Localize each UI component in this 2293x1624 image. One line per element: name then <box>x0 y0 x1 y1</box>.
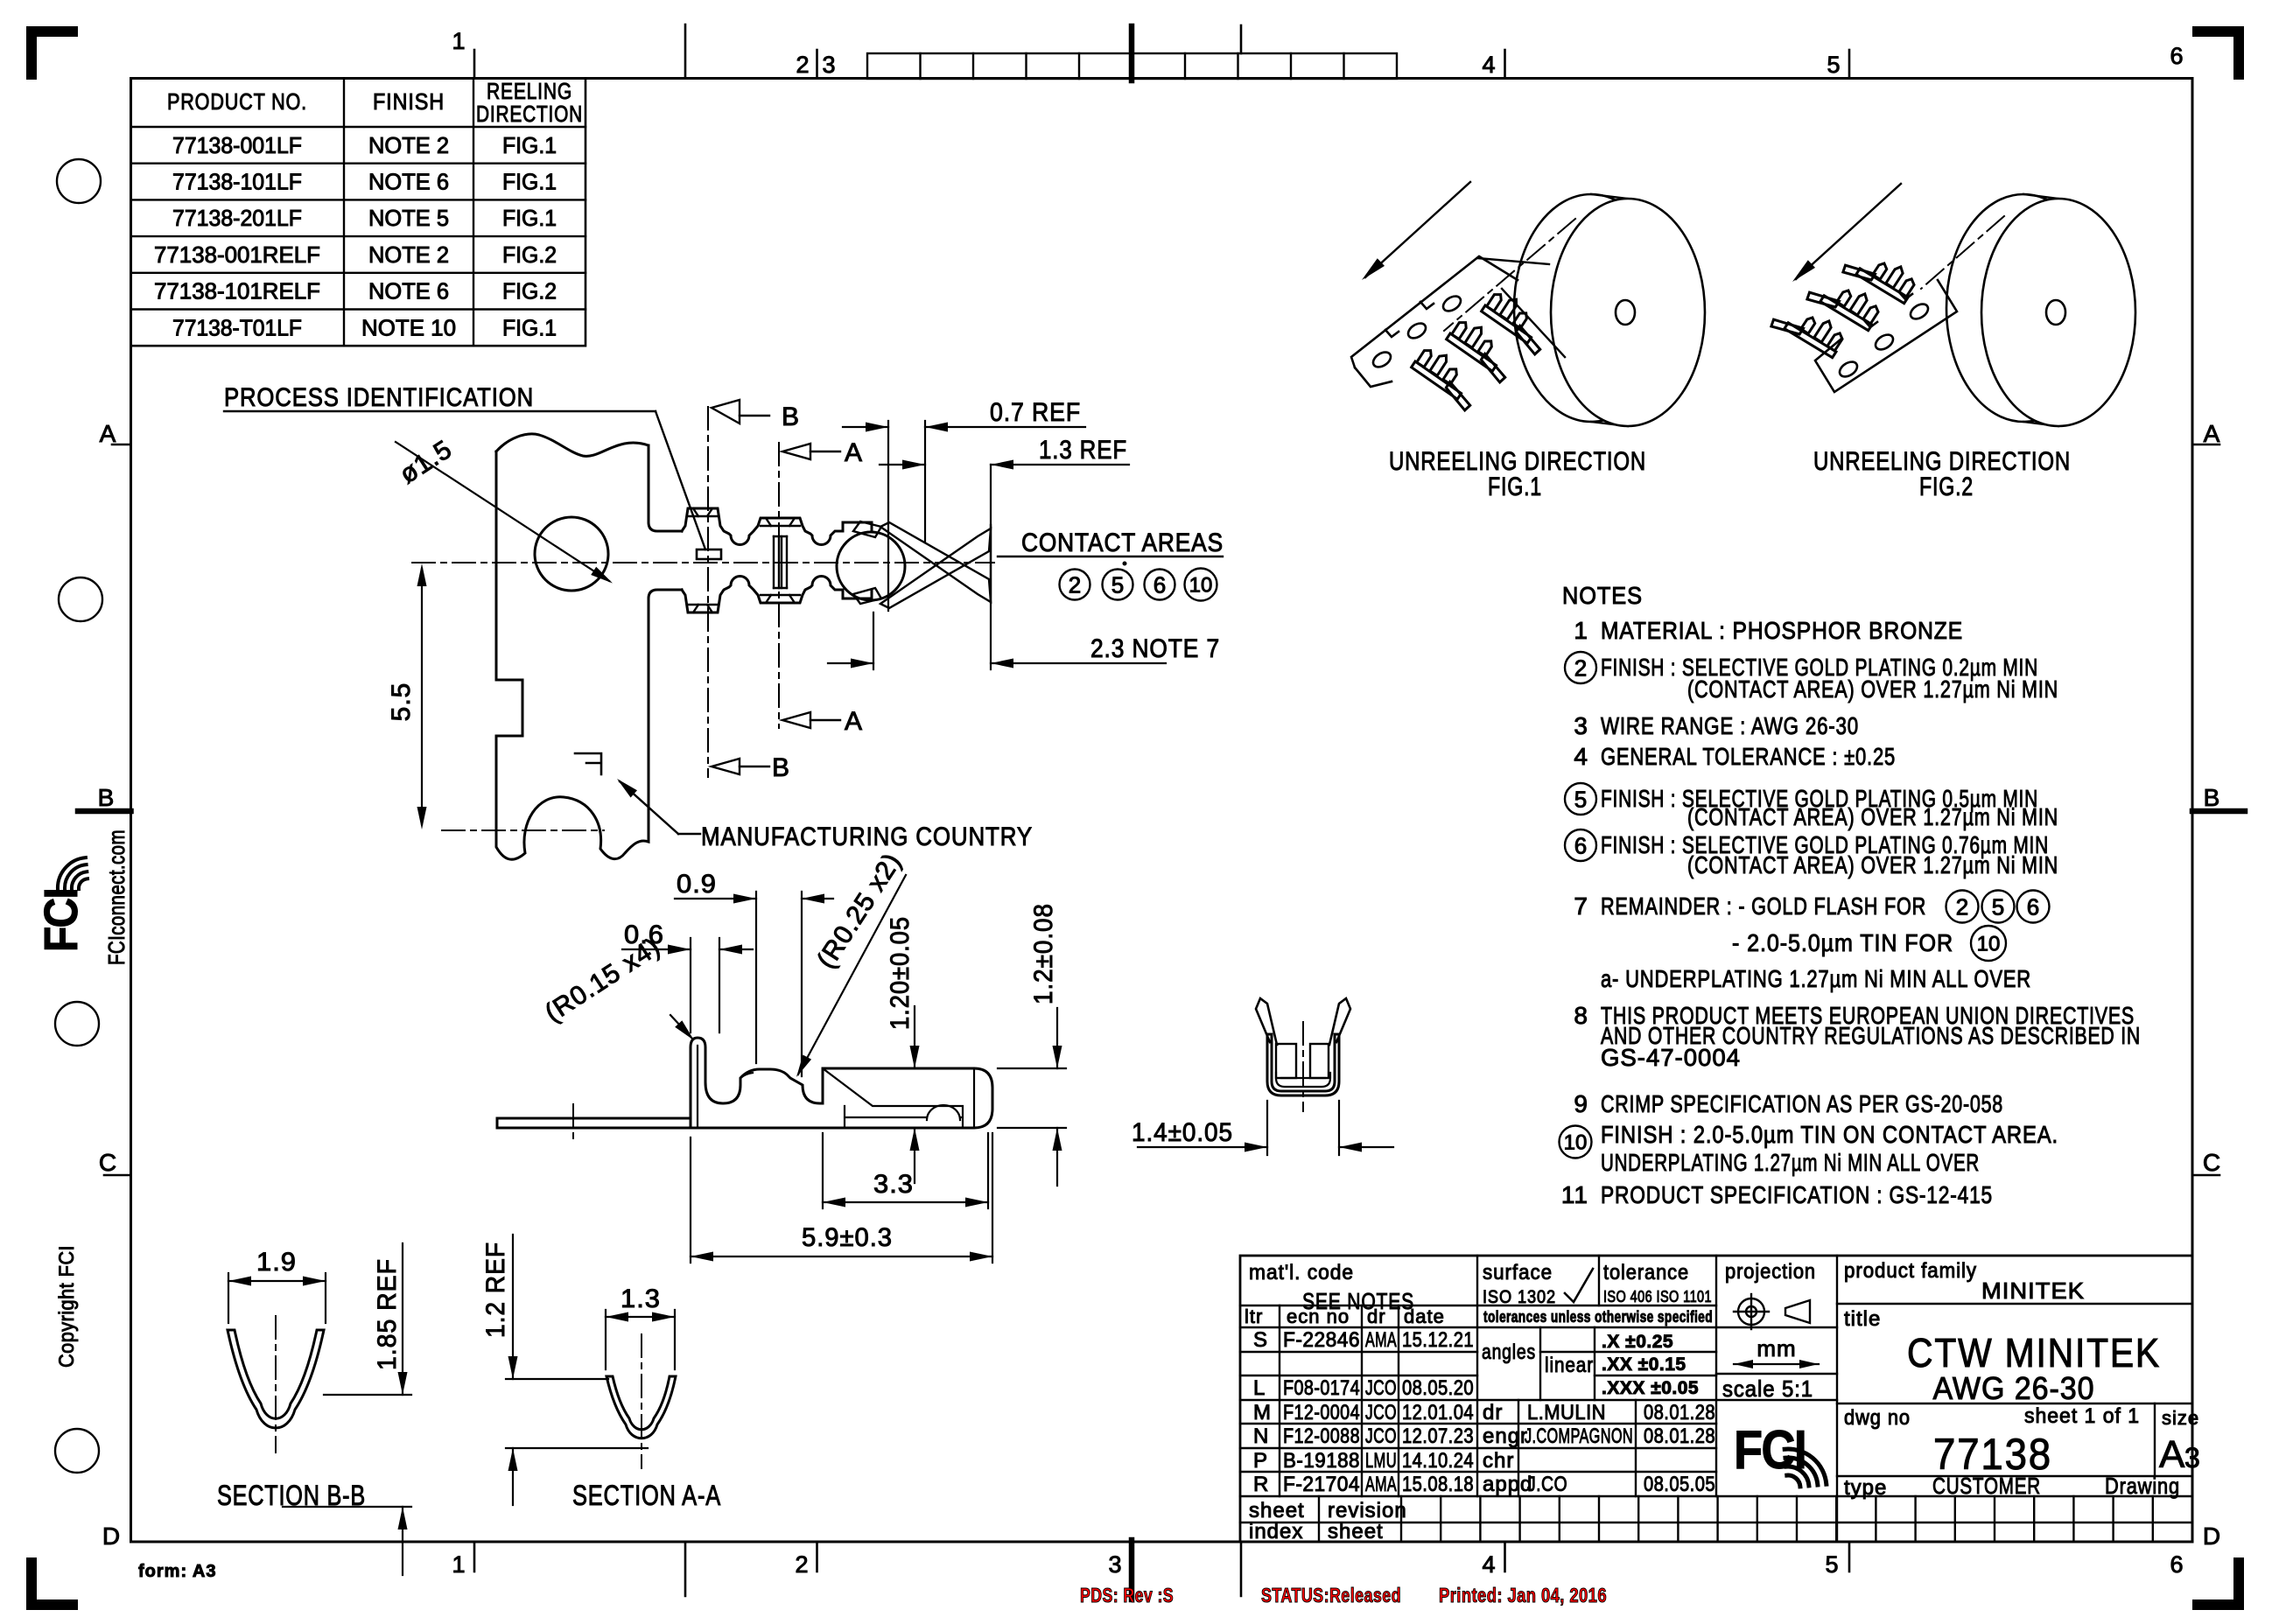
FIG.2 unreeling arrow <box>1796 184 1901 279</box>
svg-text:GENERAL TOLERANCE : ±0.25: GENERAL TOLERANCE : ±0.25 <box>1601 743 1896 770</box>
svg-text:5: 5 <box>1111 571 1124 598</box>
svg-text:.XXX ±0.05: .XXX ±0.05 <box>1602 1378 1699 1398</box>
svg-text:GS-47-0004: GS-47-0004 <box>1601 1044 1741 1071</box>
svg-text:a- UNDERPLATING 1.27µm Ni MIN: a- UNDERPLATING 1.27µm Ni MIN ALL OVER <box>1601 965 2031 992</box>
svg-text:linear: linear <box>1545 1354 1594 1377</box>
svg-text:FIG.1: FIG.1 <box>502 169 557 195</box>
svg-text:NOTE 5: NOTE 5 <box>368 205 449 231</box>
flat view: terminal outline bottom <box>682 577 872 613</box>
dim: 1.3 REF <box>990 465 992 669</box>
flat view: fork blades <box>880 522 991 602</box>
svg-text:NOTE 2: NOTE 2 <box>368 241 449 268</box>
flat view: carrier hole <box>535 517 608 591</box>
svg-text:14.10.24: 14.10.24 <box>1402 1449 1474 1473</box>
svg-text:77138: 77138 <box>1933 1430 2052 1479</box>
svg-text:AMA: AMA <box>1365 1473 1397 1496</box>
svg-text:5: 5 <box>1827 52 1840 78</box>
svg-text:10: 10 <box>1189 574 1213 598</box>
svg-text:77138-101LF: 77138-101LF <box>172 169 302 195</box>
front view: wings <box>1256 998 1277 1045</box>
note 2 <box>1565 652 1596 683</box>
svg-text:11: 11 <box>1561 1181 1588 1208</box>
svg-text:SECTION B-B: SECTION B-B <box>217 1480 366 1511</box>
dim: 0.9 <box>755 892 757 1063</box>
svg-text:MATERIAL : PHOSPHOR BRONZE: MATERIAL : PHOSPHOR BRONZE <box>1601 617 1963 644</box>
note 5 <box>1565 783 1596 815</box>
svg-text:15.12.21: 15.12.21 <box>1402 1328 1474 1352</box>
note 6 <box>1565 829 1596 861</box>
svg-text:SECTION A-A: SECTION A-A <box>572 1480 721 1511</box>
circled finish numbers <box>1060 570 1090 600</box>
svg-text:size: size <box>2162 1407 2199 1429</box>
svg-text:title: title <box>1844 1307 1881 1331</box>
svg-text:0.7 REF: 0.7 REF <box>990 398 1081 427</box>
svg-text:10: 10 <box>1977 933 2001 956</box>
svg-text:6: 6 <box>2027 893 2039 920</box>
svg-text:chr: chr <box>1483 1449 1514 1473</box>
svg-text:tolerance: tolerance <box>1603 1261 1689 1284</box>
FIG.1 unreeling arrow <box>1365 182 1470 277</box>
svg-text:DIRECTION: DIRECTION <box>476 101 583 127</box>
svg-text:B: B <box>772 753 789 782</box>
svg-text:.XX ±0.15: .XX ±0.15 <box>1602 1354 1686 1375</box>
section B-B view <box>228 1330 324 1428</box>
svg-text:FINISH : 2.0-5.0µm TIN ON CONT: FINISH : 2.0-5.0µm TIN ON CONTACT AREA. <box>1601 1121 2058 1148</box>
svg-text:1.4±0.05: 1.4±0.05 <box>1132 1118 1233 1147</box>
svg-text:D: D <box>102 1522 120 1550</box>
front view: wire sections <box>1276 1044 1296 1078</box>
svg-text:ltr: ltr <box>1245 1305 1263 1327</box>
svg-text:NOTE 6: NOTE 6 <box>368 169 449 195</box>
flat view: barrel latch hooks <box>853 521 881 537</box>
svg-text:Printed: Jan 04, 2016: Printed: Jan 04, 2016 <box>1439 1584 1607 1606</box>
svg-text:5.9±0.3: 5.9±0.3 <box>802 1223 893 1252</box>
svg-text:1.20±0.05: 1.20±0.05 <box>886 916 915 1030</box>
flat view: crimp inner lines <box>688 508 800 612</box>
svg-text:5: 5 <box>1574 786 1587 812</box>
svg-text:CUSTOMER: CUSTOMER <box>1932 1473 2041 1499</box>
svg-text:NOTE 10: NOTE 10 <box>361 314 456 340</box>
svg-text:1.85 REF: 1.85 REF <box>373 1258 402 1370</box>
svg-text:6: 6 <box>1574 832 1587 858</box>
svg-text:NOTE 2: NOTE 2 <box>368 132 449 158</box>
svg-text:FIG.1: FIG.1 <box>1488 472 1542 501</box>
svg-text:A: A <box>2159 1433 2185 1476</box>
projection symbol <box>1734 1294 1810 1329</box>
svg-text:B-19188: B-19188 <box>1283 1449 1360 1473</box>
dim: 5.9 +/-0.3 <box>690 1137 691 1263</box>
svg-text:6: 6 <box>1154 571 1166 598</box>
svg-text:mm: mm <box>1757 1335 1796 1361</box>
svg-text:B: B <box>2204 784 2220 811</box>
svg-text:C: C <box>2203 1149 2220 1176</box>
zone ticks and centring marks, top edge <box>473 50 476 79</box>
zone ticks left edge <box>112 444 131 446</box>
FIG.2 tape path <box>1921 216 2004 289</box>
flat view: process id mark <box>697 549 721 559</box>
svg-text:77138-001LF: 77138-001LF <box>172 132 302 158</box>
svg-text:sheet: sheet <box>1328 1520 1384 1543</box>
svg-text:PDS: Rev :S: PDS: Rev :S <box>1080 1584 1174 1606</box>
svg-text:engr: engr <box>1483 1424 1528 1448</box>
svg-text:F-21704: F-21704 <box>1283 1473 1360 1496</box>
svg-text:1: 1 <box>452 1551 465 1578</box>
svg-text:REMAINDER : - GOLD FLASH FOR: REMAINDER : - GOLD FLASH FOR <box>1601 892 1926 920</box>
svg-text:PRODUCT NO.: PRODUCT NO. <box>167 88 307 115</box>
svg-text:AMA: AMA <box>1365 1328 1397 1352</box>
FIG.1 terminals on strip <box>1407 343 1485 411</box>
svg-text:1.2 REF: 1.2 REF <box>481 1242 510 1338</box>
svg-text:B: B <box>782 402 799 431</box>
dim: 5.5 <box>421 569 423 824</box>
svg-text:scale 5:1: scale 5:1 <box>1722 1375 1813 1402</box>
svg-text:FIG.2: FIG.2 <box>1919 472 1974 501</box>
svg-text:P: P <box>1253 1449 1268 1473</box>
svg-text:revision: revision <box>1328 1499 1407 1522</box>
svg-text:1.2±0.08: 1.2±0.08 <box>1029 903 1058 1004</box>
svg-text:08.05.05: 08.05.05 <box>1644 1473 1715 1496</box>
front view: inner bottom line <box>1276 1073 1330 1087</box>
svg-text:0.9: 0.9 <box>677 870 717 899</box>
svg-text:2.3 NOTE 7: 2.3 NOTE 7 <box>1090 634 1220 663</box>
svg-text:AWG 26-30: AWG 26-30 <box>1933 1370 2095 1406</box>
svg-text:3: 3 <box>1574 712 1588 739</box>
svg-text:(CONTACT AREA) OVER 1.27µm Ni: (CONTACT AREA) OVER 1.27µm Ni MIN <box>1687 803 2058 830</box>
svg-text:12.01.04: 12.01.04 <box>1402 1401 1474 1424</box>
svg-text:WIRE RANGE : AWG 26-30: WIRE RANGE : AWG 26-30 <box>1601 712 1859 739</box>
svg-text:F12-0088: F12-0088 <box>1283 1424 1360 1448</box>
svg-text:index: index <box>1249 1520 1303 1543</box>
svg-text:(CONTACT AREA) OVER 1.27µm Ni: (CONTACT AREA) OVER 1.27µm Ni MIN <box>1687 675 2058 703</box>
svg-text:surface: surface <box>1483 1261 1553 1284</box>
svg-text:J.CO: J.CO <box>1527 1473 1567 1496</box>
svg-text:1: 1 <box>452 28 465 54</box>
flat view: contact barrel <box>837 532 905 600</box>
svg-text:FCI: FCI <box>35 889 88 952</box>
side view: carrier tail <box>497 1117 691 1120</box>
flat view: terminal outline top <box>682 508 872 545</box>
svg-text:77138-001RELF: 77138-001RELF <box>154 241 320 268</box>
svg-text:FCIconnect.com: FCIconnect.com <box>103 829 130 965</box>
front view: centreline <box>1302 1022 1304 1111</box>
svg-text:JCO: JCO <box>1365 1401 1397 1424</box>
svg-text:15.08.18: 15.08.18 <box>1402 1473 1474 1496</box>
svg-text:dwg no: dwg no <box>1844 1406 1911 1430</box>
FIG.1 reel <box>1514 194 1705 426</box>
svg-text:2: 2 <box>1574 654 1587 681</box>
svg-text:NOTE 6: NOTE 6 <box>368 278 449 304</box>
svg-text:MANUFACTURING COUNTRY: MANUFACTURING COUNTRY <box>701 822 1033 851</box>
flat view: horizontal centreline <box>412 562 994 563</box>
section line A-A <box>778 443 780 728</box>
svg-text:NOTES: NOTES <box>1562 582 1643 609</box>
svg-text:8: 8 <box>1574 1002 1588 1029</box>
svg-text:Drawing: Drawing <box>2105 1473 2180 1499</box>
svg-text:FIG.2: FIG.2 <box>502 278 557 304</box>
svg-text:ecn no: ecn no <box>1287 1305 1350 1327</box>
dim: 0.6 <box>690 938 691 1032</box>
flat view: carrier strip outline <box>496 434 682 859</box>
svg-text:sheet: sheet <box>1249 1499 1305 1522</box>
svg-text:12.07.23: 12.07.23 <box>1402 1424 1474 1448</box>
svg-text:3: 3 <box>1108 1551 1121 1578</box>
svg-text:F-22846: F-22846 <box>1283 1328 1360 1352</box>
svg-text:A: A <box>845 707 862 736</box>
title block: FCI logo <box>1734 1420 1827 1487</box>
svg-text:ISO 406 ISO 1101: ISO 406 ISO 1101 <box>1603 1288 1712 1305</box>
svg-text:2: 2 <box>1956 893 1968 920</box>
svg-text:5.5: 5.5 <box>387 682 416 722</box>
svg-text:6: 6 <box>2170 1551 2183 1578</box>
side view: terminal profile <box>691 1038 992 1128</box>
svg-text:FINISH: FINISH <box>373 88 445 115</box>
section line B-B <box>707 407 709 777</box>
svg-text:10: 10 <box>1564 1131 1588 1155</box>
svg-text:Copyright FCI: Copyright FCI <box>55 1245 79 1368</box>
dim: 1.4 +/-0.05 <box>1266 1101 1268 1155</box>
dim: 0.7 REF <box>887 421 889 611</box>
svg-text:2: 2 <box>795 1551 808 1578</box>
svg-text:PRODUCT SPECIFICATION : GS-12-: PRODUCT SPECIFICATION : GS-12-415 <box>1601 1181 1993 1208</box>
svg-text:FIG.1: FIG.1 <box>502 205 557 231</box>
dim: 1.3 <box>605 1310 607 1369</box>
svg-text:R: R <box>1253 1473 1269 1496</box>
svg-text:3: 3 <box>822 52 835 78</box>
svg-text:08.01.28: 08.01.28 <box>1644 1424 1715 1448</box>
svg-text:MINITEK: MINITEK <box>1981 1277 2085 1304</box>
svg-text:2: 2 <box>796 52 809 78</box>
svg-text:77138-T01LF: 77138-T01LF <box>172 314 302 340</box>
svg-text:FIG.1: FIG.1 <box>502 314 557 340</box>
svg-text:J.COMPAGNON: J.COMPAGNON <box>1525 1424 1633 1448</box>
svg-text:L.MULIN: L.MULIN <box>1527 1401 1606 1424</box>
dim: dia 1.5 leader <box>396 442 609 581</box>
svg-text:projection: projection <box>1725 1260 1816 1284</box>
FIG.2 terminals on strip <box>1770 295 1848 363</box>
flat view: lower centreline <box>442 829 604 831</box>
svg-text:type: type <box>1844 1476 1887 1500</box>
svg-text:08.01.28: 08.01.28 <box>1644 1401 1715 1424</box>
product table <box>131 79 586 346</box>
svg-text:dr: dr <box>1483 1401 1503 1424</box>
FIG.2 carrier strip band <box>1815 280 1957 392</box>
svg-text:1.3 REF: 1.3 REF <box>1039 436 1127 465</box>
svg-text:CRIMP SPECIFICATION AS PER GS-: CRIMP SPECIFICATION AS PER GS-20-058 <box>1601 1090 2003 1117</box>
svg-text:5: 5 <box>1825 1551 1838 1578</box>
dim: 1.9 <box>228 1273 229 1323</box>
svg-text:M: M <box>1253 1401 1272 1424</box>
svg-text:mat'l. code: mat'l. code <box>1249 1261 1354 1284</box>
svg-text:08.05.20: 08.05.20 <box>1402 1376 1474 1400</box>
svg-text:CTW MINITEK: CTW MINITEK <box>1907 1330 2161 1375</box>
FIG.2 reel <box>1946 194 2135 426</box>
svg-text:5: 5 <box>1992 893 2004 920</box>
svg-text:3.3: 3.3 <box>873 1170 914 1199</box>
FCI logo left margin <box>35 857 88 952</box>
svg-text:C: C <box>99 1149 116 1176</box>
dim: 2.3 NOTE 7 <box>873 612 874 669</box>
svg-text:4: 4 <box>1482 52 1495 78</box>
svg-text:7: 7 <box>1574 892 1588 920</box>
svg-text:A: A <box>100 420 116 447</box>
side view: wing inner line <box>697 1046 698 1128</box>
svg-text:FIG.1: FIG.1 <box>502 132 557 158</box>
flat view: country mark F <box>575 753 601 774</box>
svg-text:B: B <box>98 784 115 811</box>
svg-text:4: 4 <box>1574 743 1588 770</box>
svg-text:CONTACT AREAS: CONTACT AREAS <box>1021 528 1224 557</box>
svg-text:dr: dr <box>1367 1305 1386 1327</box>
svg-text:(CONTACT AREA) OVER 1.27µm Ni: (CONTACT AREA) OVER 1.27µm Ni MIN <box>1687 851 2058 878</box>
svg-text:angles: angles <box>1482 1340 1536 1364</box>
svg-text:appd: appd <box>1483 1473 1532 1496</box>
svg-text:form: A3: form: A3 <box>138 1562 216 1581</box>
svg-text:product family: product family <box>1844 1259 1977 1283</box>
svg-text:JCO: JCO <box>1365 1376 1397 1400</box>
svg-text:A: A <box>2204 420 2220 447</box>
FIG.1 tape path <box>1444 219 1575 331</box>
svg-text:date: date <box>1404 1305 1445 1327</box>
svg-text:sheet 1 of 1: sheet 1 of 1 <box>2024 1404 2140 1428</box>
svg-text:77138-101RELF: 77138-101RELF <box>154 278 320 304</box>
svg-text:77138-201LF: 77138-201LF <box>172 205 302 231</box>
punch holes <box>57 159 101 203</box>
svg-text:ISO 1302: ISO 1302 <box>1483 1287 1556 1307</box>
svg-text:.X ±0.25: .X ±0.25 <box>1602 1332 1673 1352</box>
svg-text:UNDERPLATING 1.27µm Ni MIN ALL: UNDERPLATING 1.27µm Ni MIN ALL OVER <box>1601 1149 1980 1176</box>
svg-text:1.9: 1.9 <box>256 1248 297 1277</box>
dim: 3.3 <box>822 1133 824 1208</box>
title block grid <box>1240 1256 2192 1542</box>
svg-text:6: 6 <box>2170 43 2183 69</box>
svg-text:JCO: JCO <box>1365 1424 1397 1448</box>
svg-text:L: L <box>1253 1376 1266 1400</box>
svg-text:PROCESS IDENTIFICATION: PROCESS IDENTIFICATION <box>224 383 534 412</box>
svg-text:FIG.2: FIG.2 <box>502 241 557 268</box>
svg-text:STATUS:Released: STATUS:Released <box>1261 1584 1401 1606</box>
FIG.1 carrier strip band <box>1351 256 1518 387</box>
zone ticks bottom edge <box>473 1542 476 1571</box>
svg-text:3: 3 <box>2184 1442 2200 1473</box>
svg-text:1: 1 <box>1574 617 1588 644</box>
side view: body inner detail <box>823 1068 963 1128</box>
svg-text:tolerances unless otherwise: tolerances unless otherwise specified <box>1483 1308 1713 1326</box>
svg-text:A: A <box>845 438 862 467</box>
svg-text:LMU: LMU <box>1365 1449 1397 1473</box>
svg-text:- 2.0-5.0µm TIN FOR: - 2.0-5.0µm TIN FOR <box>1732 929 1953 956</box>
svg-text:F08-0174: F08-0174 <box>1283 1376 1360 1400</box>
svg-text:9: 9 <box>1574 1090 1588 1117</box>
svg-text:2: 2 <box>1069 571 1081 598</box>
svg-text:4: 4 <box>1482 1551 1495 1578</box>
svg-text:N: N <box>1253 1424 1269 1448</box>
top ruler graduation bar <box>867 53 1397 79</box>
svg-text:S: S <box>1253 1328 1268 1352</box>
section A-A view <box>607 1376 676 1438</box>
svg-text:D: D <box>2203 1522 2220 1550</box>
svg-text:F12-0004: F12-0004 <box>1283 1401 1360 1424</box>
svg-text:1.3: 1.3 <box>621 1284 661 1313</box>
zone ticks right edge <box>2192 444 2219 446</box>
front view: crimp barrel outer <box>1267 1034 1339 1095</box>
note 10 <box>1560 1126 1592 1158</box>
